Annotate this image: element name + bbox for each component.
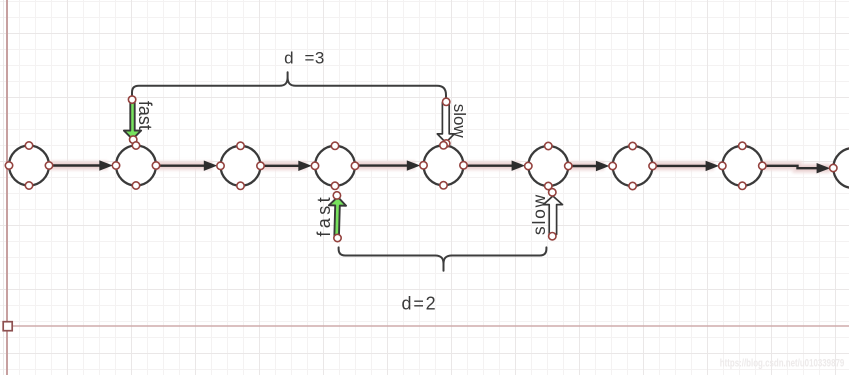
label slow (bottom) (529, 193, 549, 235)
fast pointer arrow (green, down, above node 2) (124, 101, 141, 139)
svg-text:https://blog.csdn.net/u0103398: https://blog.csdn.net/u010339879 (720, 357, 845, 369)
node 4 (list node circle) (315, 146, 355, 186)
wire A4 (arrow) (355, 160, 420, 170)
connection handles of node 5 (420, 142, 467, 189)
connection handles of node 8 (719, 142, 766, 189)
endpoint handles of fast arrow (bottom) (333, 192, 341, 242)
endpoint handles of slow arrow (bottom) (549, 189, 556, 240)
svg-text:fast: fast (314, 194, 334, 237)
slow pointer arrow (white, down, above node 5) (437, 103, 454, 143)
svg-text:d =3: d =3 (284, 49, 325, 68)
wire A3 (arrow) (261, 161, 312, 171)
wire A8 (arrow) (762, 163, 830, 173)
brace d=2 (under nodes 4..6) (339, 247, 547, 270)
node 8 (list node circle) (722, 146, 762, 186)
endpoint handles of slow arrow (top) (443, 98, 450, 147)
svg-text:fast: fast (135, 101, 155, 130)
page corner marker (3, 322, 12, 331)
fast pointer arrow (green, up, below node 4) (328, 197, 346, 236)
node 5 (list node circle) (424, 145, 464, 185)
wire A6 (arrow) (568, 161, 609, 171)
svg-text:slow: slow (450, 104, 469, 139)
node 7 (list node circle) (613, 146, 653, 186)
watermark (720, 357, 845, 369)
slow pointer arrow (white, up, below node 6) (543, 196, 562, 234)
node 1 (list node circle) (9, 146, 49, 186)
connection handles of node 9 (830, 144, 849, 191)
endpoint handles of fast arrow (top) (128, 96, 136, 143)
wire A5 (arrow) (464, 160, 526, 170)
svg-text:slow: slow (529, 193, 549, 235)
node 3 (list node circle) (221, 146, 261, 186)
svg-text:d=2: d=2 (402, 294, 438, 314)
connection handles of node 4 (311, 142, 358, 189)
brace d=3 (over nodes 2..5) (132, 72, 446, 101)
node 6 (list node circle) (528, 146, 568, 186)
wire A2 (arrow) (156, 160, 217, 170)
connection handles of node 2 (112, 142, 159, 189)
page border vertical line (6, 0, 8, 375)
label d =3 (284, 49, 325, 68)
page border horizontal line (8, 325, 849, 327)
label slow (top) (450, 104, 469, 139)
connection handles of node 1 (5, 142, 52, 189)
connection handles of node 6 (525, 142, 572, 189)
wire A1 (arrow) (49, 160, 113, 170)
label fast (bottom) (314, 194, 334, 237)
wire A7 (arrow) (653, 161, 720, 171)
label fast (top) (135, 101, 155, 130)
node 2 (list node circle) (116, 146, 156, 186)
node 9 (list node circle) (833, 148, 849, 188)
connection handles of node 3 (217, 142, 264, 189)
connection handles of node 7 (609, 142, 656, 189)
label d=2 (402, 294, 438, 314)
